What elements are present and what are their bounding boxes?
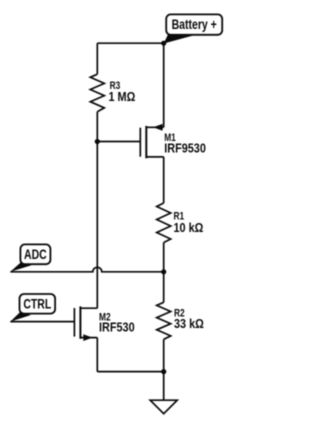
wire: M1 gate wire [97,141,140,143]
svg-text:IRF530: IRF530 [99,321,135,335]
wire: right vertical R2 to ground [163,339,165,400]
wire: right vertical battery node to M1 source lead [163,43,165,127]
wire: right vertical R1 to R2 [163,243,165,303]
wire: right vertical M1 drain lead down to R1 [163,157,165,203]
resistor R3 [90,74,135,112]
svg-text:ADC: ADC [24,247,47,263]
ground [150,400,177,414]
svg-text:10 kΩ: 10 kΩ [174,221,204,235]
node: junction dot at M1 gate tap [95,139,100,144]
node: junction dot ADC tap [161,269,166,274]
svg-text:1 MΩ: 1 MΩ [109,90,136,104]
wire: ADC horizontal with hop over left vertical [10,267,163,272]
node: junction dot at bottom wire [161,369,166,374]
node: battery junction dot [161,41,166,46]
svg-text:Battery +: Battery + [172,17,217,33]
svg-text:CTRL: CTRL [23,296,51,312]
flag label CTRL [10,294,55,322]
wire: top horizontal from left branch to battery node [97,42,163,44]
flag label ADC [10,244,50,271]
svg-text:IRF9530: IRF9530 [164,142,206,156]
transistor M1 IRF9530 [140,124,206,158]
wire: left vertical down to R3 [96,43,98,74]
flag label Battery + [164,14,223,43]
transistor M2 IRF530 [74,306,135,371]
wire: left vertical from R3 down to M2 drain [96,112,98,308]
wire: CTRL to M2 gate [10,321,74,323]
wire: bottom horizontal from M2 source to ground branch [97,371,163,373]
resistor R1 [157,203,204,243]
resistor R2 [157,302,204,339]
svg-text:33 kΩ: 33 kΩ [174,317,204,331]
